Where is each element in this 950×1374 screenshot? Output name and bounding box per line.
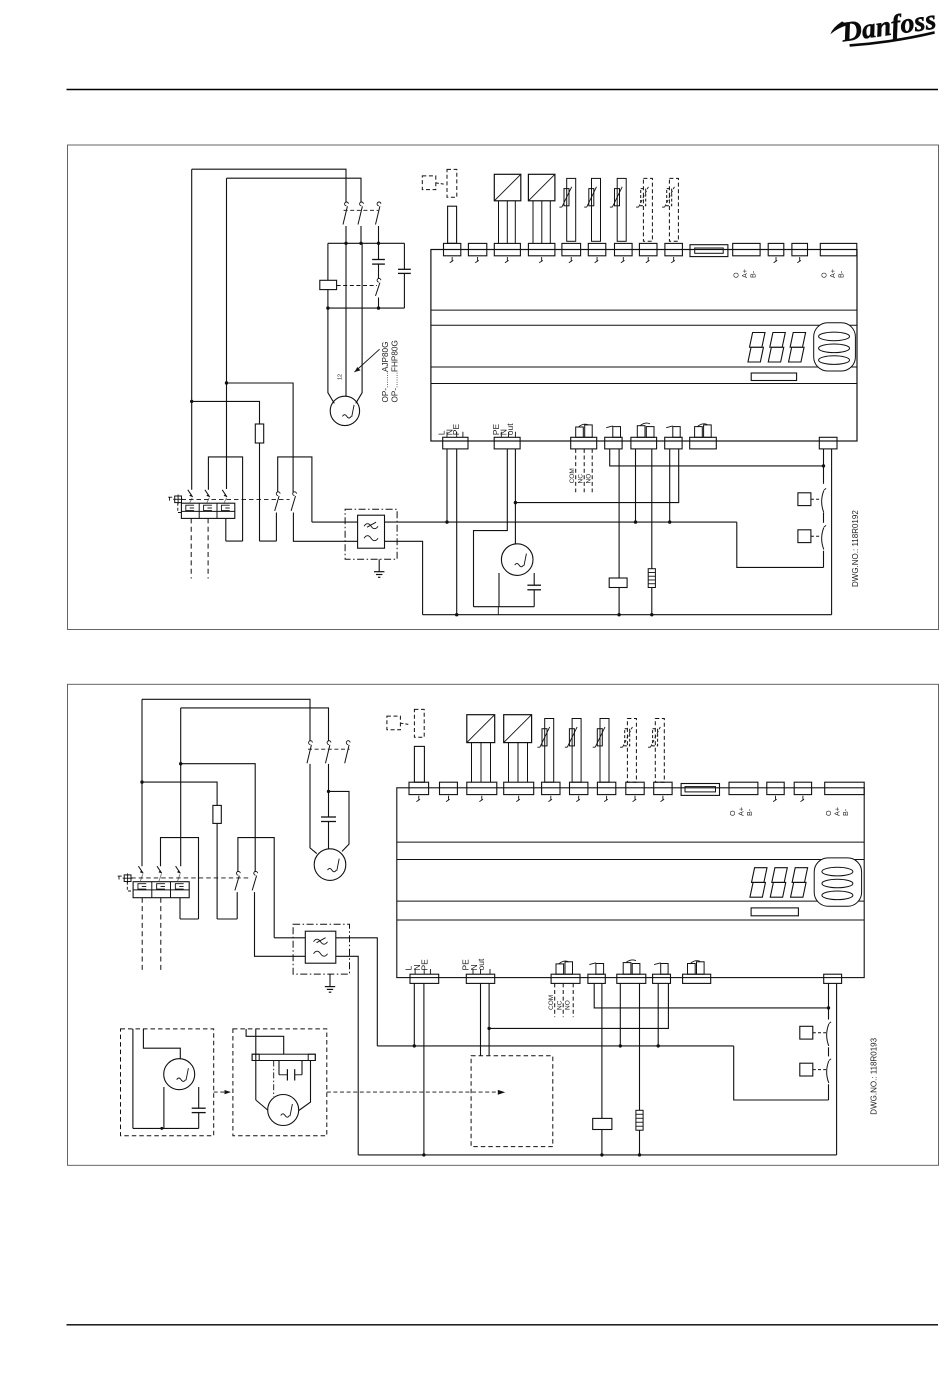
optional dashed sensor above terminal 1 xyxy=(422,176,436,190)
defrost unit wire 1 xyxy=(246,1029,284,1054)
node alarm rail (diagram 2) xyxy=(827,1006,830,1009)
controller EKC main box (diagram 2) xyxy=(397,788,864,978)
terminal 6 S4 (diagram 2) xyxy=(570,782,588,794)
auxiliary relay coil xyxy=(609,578,627,588)
main switch pole 1 xyxy=(276,492,280,496)
wire TB1 N xyxy=(456,449,458,615)
svg-text:B-: B- xyxy=(749,270,758,278)
fan unit capacitor xyxy=(192,1107,206,1109)
svg-text:PE: PE xyxy=(451,424,461,436)
optional dashed sensor (diagram 2) xyxy=(387,716,401,730)
alarm chain to bus (diagram 2) xyxy=(828,1084,830,1100)
rail fuse-to-pole1 (diagram 2) xyxy=(217,918,237,920)
wire L1 drop xyxy=(191,169,193,490)
defrost unit wiring xyxy=(256,1100,268,1110)
overload pole 3 bottom riser xyxy=(225,518,227,541)
controller label window xyxy=(751,373,796,381)
compressor lead 2 xyxy=(345,243,347,396)
svg-text:COM: COM xyxy=(548,995,555,1010)
wire DO3 left (diagram 2) xyxy=(619,983,621,1046)
node fan branch (diagram 2) xyxy=(487,1027,490,1030)
wire DO4 left (diagram 2) xyxy=(657,983,659,1046)
pressure transmitter Pc xyxy=(528,174,555,201)
controller buttons xyxy=(814,323,856,371)
terminal block O A+ B- (diagram 2 right) xyxy=(825,782,865,794)
node L2 branch xyxy=(225,381,228,384)
ground symbol (diagram 2) xyxy=(329,974,331,987)
svg-text:PE: PE xyxy=(420,959,430,971)
terminal PE N out (fan supply) xyxy=(494,437,520,449)
wire L2 to contactor xyxy=(227,178,362,202)
node contact outputs xyxy=(344,242,347,245)
controller 2 label window xyxy=(751,908,798,916)
terminal 8 S6 (diagram 2) xyxy=(626,782,644,794)
motor protection breaker block xyxy=(181,503,234,518)
pressure transmitter Pc (diagram 2) xyxy=(504,715,532,743)
wire TB1 L (diagram 2) xyxy=(413,983,415,1046)
branch around capacitor (diagram 2) xyxy=(329,791,350,851)
relay terminal DO5 (diagram 2) xyxy=(683,974,711,983)
overload loop pole 2 (diagram 2) xyxy=(161,838,199,919)
node TB1-L (diagram 2) xyxy=(413,1044,416,1047)
wire TB2 out xyxy=(514,449,516,544)
fuse F1 xyxy=(255,424,263,443)
svg-text:out: out xyxy=(505,423,515,435)
wire L2 drop xyxy=(226,178,228,489)
node coil bottom (diagram 2) xyxy=(600,1153,603,1156)
node DO3 left xyxy=(634,520,637,523)
node L2 branch (diagram 2) xyxy=(179,762,182,765)
fan rail to DO4 xyxy=(515,449,678,503)
relay terminal DO3 (diagram 2) xyxy=(617,974,646,983)
optional sensor S6 (diagram 2) xyxy=(627,719,636,783)
wire DO3 left xyxy=(635,449,637,522)
supply cable dashed 1 xyxy=(190,518,192,578)
node DO3 left (diagram 2) xyxy=(619,1044,622,1047)
supply terminal pin ticks (diagram 2) xyxy=(414,969,416,974)
terminal alarm/network (diagram 2) xyxy=(824,974,842,983)
node fan branch xyxy=(514,501,517,504)
overload trip contact 2 (diagram 2) xyxy=(157,866,162,873)
alarm chain to bus L xyxy=(823,551,825,568)
relay contact symbol DO5 (diagram 2) xyxy=(688,964,696,975)
relay contact symbol DO2 xyxy=(613,427,621,438)
relay terminal DO2 xyxy=(605,437,622,449)
pressure transmitter Pe (diagram 2) xyxy=(467,715,495,743)
figure frame 1 xyxy=(68,145,939,630)
fan motor (unit 1) xyxy=(164,1059,195,1090)
wire rail lower (start network) xyxy=(328,307,405,309)
dashed COM NC NO stubs xyxy=(575,449,577,492)
run capacitor C2 xyxy=(403,243,405,269)
defrost heater bar xyxy=(252,1054,315,1060)
sensor probe on terminal 1 (diagram 2) xyxy=(414,746,424,782)
main switch pole 2 contact (diagram 2) xyxy=(254,871,258,875)
start relay contact xyxy=(377,278,381,282)
wire TB8 left (alarm chain) xyxy=(823,449,825,484)
relay terminal DO4 (diagram 2) xyxy=(653,974,671,983)
fan frame stub to N bus xyxy=(497,607,499,615)
node L1 branch xyxy=(190,400,193,403)
main switch pole 2 xyxy=(293,492,297,496)
terminal L N PE (supply) xyxy=(443,437,468,449)
terminal (alarm/network) xyxy=(819,437,837,449)
breaker trip linkage dashes xyxy=(182,498,290,500)
svg-text:B-: B- xyxy=(837,270,846,278)
defrost heater element xyxy=(648,569,655,588)
wire DO2 right through relay coil (diagram 2) xyxy=(601,983,603,1118)
terminal 1 (diagram 2) xyxy=(409,782,429,794)
link alarm switches (diagram 2) xyxy=(828,1047,830,1056)
bottom bus N xyxy=(423,614,832,616)
relay contact symbol DO4 xyxy=(673,427,680,438)
dashed COM NC NO stubs (diagram 2) xyxy=(554,983,556,1017)
compressor middle lead with node (diagram 2) xyxy=(328,764,330,817)
defrost unit capacitor xyxy=(286,1069,288,1080)
defrost unit fan motor xyxy=(268,1095,299,1126)
relay contact symbol DO5 xyxy=(695,427,703,438)
node alarm rail xyxy=(822,464,825,467)
terminal 2 (diagram 2) xyxy=(440,782,458,794)
terminal 12 (diagram 2) xyxy=(767,782,784,794)
contactor linkage dashes (diagram 2) xyxy=(308,748,350,750)
auxiliary relay coil (diagram 2) xyxy=(593,1118,612,1129)
evaporator fan unit (dashed box) xyxy=(121,1029,214,1136)
compressor run capacitor (diagram 2) xyxy=(321,816,336,818)
node L1 branch (diagram 2) xyxy=(140,780,143,783)
rail pole3-to-loop xyxy=(226,540,243,542)
relay contact symbol DO4 (diagram 2) xyxy=(661,964,668,975)
display/jumper connector (diagram 2) xyxy=(681,784,719,796)
wire TB2 PE (diagram 2) xyxy=(480,983,482,1055)
compressor lead 3 xyxy=(356,243,362,403)
contactor contact K1-1 xyxy=(345,202,349,206)
terminal block O A+ B- (network 2) xyxy=(820,243,857,255)
terminal 2 xyxy=(468,243,486,255)
alarm switch 2 (diagram 2) xyxy=(800,1063,813,1076)
terminal 13 (diagram 2) xyxy=(794,782,811,794)
controller 7-segment display xyxy=(750,333,766,348)
terminal 9 (S7 sensor, option) xyxy=(665,243,683,255)
main switch pole 1 (diagram 2) xyxy=(237,871,241,875)
relay terminal DO2 (diagram 2) xyxy=(588,974,605,983)
display/jumper connector xyxy=(690,245,728,257)
relay terminal DO5 xyxy=(690,437,717,449)
compressor motor (diagram 2) xyxy=(314,849,346,881)
sensor probe on terminal 1 xyxy=(448,206,457,243)
overload trip contact 2 xyxy=(205,490,210,497)
relay contact symbol on COM NC NO terminal xyxy=(576,427,584,437)
motor protection breaker (diagram 2) xyxy=(133,882,189,898)
fan motor M2 xyxy=(501,544,533,576)
overload trip contact 1 xyxy=(188,490,193,497)
wire to main switch pole 2 xyxy=(227,383,294,492)
overload trip contact 3 xyxy=(222,490,227,497)
wire TB1 L xyxy=(446,449,448,522)
wire TB2 PE to fan frame xyxy=(474,449,508,607)
breaker manual operator xyxy=(175,496,182,503)
pressure transmitter Pe xyxy=(494,174,521,201)
relay contact symbol DO2 (diagram 2) xyxy=(596,964,604,975)
alarm switch 1 xyxy=(798,493,811,506)
relay terminal DO3 xyxy=(631,437,657,449)
temperature sensor S3 xyxy=(567,178,576,241)
operator dashes to block xyxy=(178,503,182,513)
optional sensor S6 (dashed) xyxy=(643,178,652,241)
annotation dashes unit2-middle box xyxy=(327,1091,497,1093)
terminal 7 (S5 sensor) xyxy=(615,243,633,255)
svg-text:B-: B- xyxy=(841,808,850,816)
svg-text:out: out xyxy=(476,958,486,970)
start capacitor C1 xyxy=(378,243,380,259)
start capacitor plates xyxy=(372,259,385,261)
Danfoss logo xyxy=(828,5,938,51)
terminal 6 (S4 sensor) xyxy=(588,243,606,255)
terminal L N PE (diagram 2) xyxy=(410,974,439,983)
rail fuse-to-pole1 xyxy=(260,540,277,542)
contactor linkage dashes xyxy=(344,209,379,211)
svg-text:COM: COM xyxy=(569,468,576,483)
node heater bottom (diagram 2) xyxy=(638,1153,641,1156)
supply cable dashed 2 xyxy=(207,518,209,578)
temperature sensor S5 xyxy=(617,178,626,241)
wire TB1 N (diagram 2) xyxy=(423,983,425,1155)
contactor contact (diagram 2) pole 3 xyxy=(346,741,350,745)
relay terminal COM NC NO (diagram 2) xyxy=(551,974,580,983)
bus N out of filter (diagram 2) xyxy=(336,956,358,1155)
mains filter / power module xyxy=(345,509,397,559)
wire L1 drop (diagram 2) xyxy=(141,699,143,866)
relay contact symbol DO3 xyxy=(637,426,645,438)
node TB1-L xyxy=(445,520,448,523)
fan run capacitor xyxy=(527,584,541,586)
terminal 8 (S6 sensor, option) xyxy=(639,243,657,255)
wire L1 (diagram 2) xyxy=(142,699,310,741)
node TB1-N xyxy=(455,613,458,616)
bus L jog to alarm chain xyxy=(737,522,824,567)
svg-text:OP-.......AJP80G: OP-.......AJP80G xyxy=(381,342,390,403)
compressor lead 1 xyxy=(328,308,334,403)
rail pole3-to-loop (diagram 2) xyxy=(180,918,199,920)
upper rail into filter (diagram 2) xyxy=(274,937,305,939)
wire DO2 right through relay coil xyxy=(618,449,620,578)
bus L jog to alarm chain (diagram 2) xyxy=(734,1046,829,1100)
start relay coil xyxy=(327,243,329,280)
terminal 12 xyxy=(768,243,784,255)
compressor motor M1 xyxy=(330,396,359,425)
sensor dash-dot link xyxy=(273,1061,275,1097)
wire TB8 right to N bus (diagram 2) xyxy=(836,983,838,1155)
compressor lead left (diagram 2) xyxy=(310,764,317,854)
main switch loop pole1 (diagram 2) xyxy=(238,838,274,938)
controller 2 divider lines xyxy=(397,841,864,843)
supply cable dashed 1 (diagram 2) xyxy=(141,898,143,972)
overload loop pole 2 xyxy=(208,457,242,541)
fan unit wire 1 xyxy=(132,1029,134,1129)
contactor contact (diagram 2) pole 2 xyxy=(327,741,331,745)
pole1 bottom lead (diagram 2) xyxy=(236,892,238,919)
wire TB8 left (diagram 2) xyxy=(828,983,830,1019)
svg-text:12: 12 xyxy=(338,374,344,380)
svg-text:DWG.NO.: 118R0193: DWG.NO.: 118R0193 xyxy=(870,1037,879,1114)
overload pole 3 riser (diagram 2) xyxy=(179,898,181,919)
annotation arrow to compressor xyxy=(355,349,380,372)
terminal 7 S5 (diagram 2) xyxy=(597,782,615,794)
bottom bus N (diagram 2) xyxy=(358,1154,836,1156)
svg-text:NC: NC xyxy=(577,474,584,484)
annotation dashes unit1-unit2 xyxy=(214,1091,230,1093)
node heater bottom xyxy=(650,613,653,616)
start relay coil box xyxy=(320,280,337,289)
wire DO3 right through heater (diagram 2) xyxy=(639,983,641,1110)
wire DO2 left to alarm rail xyxy=(610,449,824,466)
relay terminal COM NC NO xyxy=(571,437,597,449)
contactor contact (diagram 2) pole 1 xyxy=(309,741,313,745)
wire L1 to contactor xyxy=(192,169,346,202)
fan unit wire 2 xyxy=(143,1029,180,1059)
pole2 bottom lead to lower rail (diagram 2) xyxy=(255,892,306,956)
air flow middle dashed box xyxy=(471,1056,553,1147)
figure frame 2 xyxy=(68,684,939,1165)
ground symbol xyxy=(378,559,380,572)
run capacitor plates xyxy=(398,268,411,270)
fan unit enclosure xyxy=(163,1087,165,1128)
terminal 5 S3 (diagram 2) xyxy=(542,782,560,794)
overload trip contact 1 (diagram 2) xyxy=(138,866,143,873)
wire to fuse (diagram 2) xyxy=(142,782,217,805)
controller divider lines xyxy=(431,309,857,311)
temperature sensor S5 (diagram 2) xyxy=(600,719,609,783)
fuse output wire xyxy=(259,443,261,541)
supply terminal pin ticks xyxy=(446,432,448,438)
terminal block O A+ B- (diagram 2 left) xyxy=(729,782,758,794)
terminal PE N out (diagram 2) xyxy=(466,974,494,983)
top rule xyxy=(67,89,939,91)
controller EKC main box (diagram 1) xyxy=(431,250,857,442)
terminal 13 xyxy=(792,243,808,255)
bus N out of filter xyxy=(385,541,423,614)
svg-text:B-: B- xyxy=(745,808,754,816)
wire DO4 left xyxy=(669,449,671,522)
bottom rule xyxy=(67,1324,939,1326)
temperature sensor S3 (diagram 2) xyxy=(545,719,554,783)
terminal 4 (Pc transmitter) xyxy=(528,243,555,255)
terminal 3 Pe (diagram 2) xyxy=(467,782,497,794)
start relay linkage dashes xyxy=(337,285,377,287)
defrost heater element (diagram 2) xyxy=(636,1110,643,1130)
wire DO2 left to alarm rail (diagram 2) xyxy=(594,983,828,1008)
svg-text:NC: NC xyxy=(556,1000,563,1010)
upper rail into filter xyxy=(312,521,358,523)
fuse (diagram 2) xyxy=(213,805,221,823)
node DO4 left (diagram 2) xyxy=(657,1044,660,1047)
capacitor to motor lead (diagram 2) xyxy=(328,822,330,849)
optional sensor S7 (diagram 2) xyxy=(655,719,664,783)
node TB1-N (diagram 2) xyxy=(422,1153,425,1156)
alarm switch 1 (diagram 2) xyxy=(800,1026,813,1039)
fan rail to DO4 (diagram 2) xyxy=(489,983,668,1028)
relay contact symbol COM NC NO (diagram 2) xyxy=(556,964,564,974)
contactor contact K1-2 xyxy=(360,202,364,206)
wire TB2 out (diagram 2) xyxy=(488,983,490,1055)
terminal block O A+ B- (network 1) xyxy=(733,243,760,255)
svg-text:NO: NO xyxy=(585,474,592,484)
link between alarm switches xyxy=(823,513,825,523)
main switch pole1 bottom lead xyxy=(275,513,277,542)
svg-text:OP-.......FHP80G: OP-.......FHP80G xyxy=(391,340,400,402)
wire L2 (diagram 2) xyxy=(181,708,329,741)
breaker manual operator (diagram 2) xyxy=(124,875,131,882)
terminal 4 Pc (diagram 2) xyxy=(504,782,534,794)
wire TB8 right to N bus xyxy=(831,449,833,615)
fan unit bottom wire xyxy=(133,1127,199,1129)
relay terminal DO4 xyxy=(665,437,682,449)
relay contact symbol DO3 (diagram 2) xyxy=(623,963,631,975)
terminal 1 (sensor input) xyxy=(444,243,461,255)
controller 2 buttons xyxy=(814,858,861,906)
node DO4 left xyxy=(668,520,671,523)
alarm switch 2 xyxy=(798,530,811,543)
optional sensor S7 (dashed) xyxy=(669,178,678,241)
temperature sensor S4 (diagram 2) xyxy=(572,719,581,783)
bus L out of filter xyxy=(385,521,737,523)
wire rail upper (start network) xyxy=(328,242,405,244)
main switch pole2 bottom lead xyxy=(293,513,357,542)
controller 2 7-segment display xyxy=(752,868,768,883)
trip linkage dashes (diagram 2) xyxy=(131,877,250,879)
wire to fuse xyxy=(192,401,260,424)
defrost unit (dashed box) xyxy=(233,1029,327,1136)
terminal 5 (S3 sensor) xyxy=(562,243,581,255)
overload trip contact 3 (diagram 2) xyxy=(176,866,181,873)
svg-text:DWG.NO.: 118R0192: DWG.NO.: 118R0192 xyxy=(851,510,860,587)
terminal 3 (Pe transmitter) xyxy=(494,243,520,255)
wire to main switch pole 2 (diagram 2) xyxy=(181,764,256,872)
mains filter (diagram 2) xyxy=(293,924,349,974)
terminal 9 S7 (diagram 2) xyxy=(654,782,672,794)
node coil bottom xyxy=(617,613,620,616)
contactor contact K1-3 xyxy=(377,202,381,206)
temperature sensor S4 xyxy=(592,178,601,241)
operator dashes (diagram 2) xyxy=(127,882,133,891)
supply cable dashed 2 (diagram 2) xyxy=(160,898,162,972)
bus L out of filter (diagram 2) xyxy=(336,938,378,1046)
fan motor enclosure xyxy=(498,573,500,607)
main switch loop (pole1 top) xyxy=(278,457,312,522)
svg-text:NO: NO xyxy=(564,1000,571,1010)
fuse output (diagram 2) xyxy=(216,823,218,919)
bus L horizontal (diagram 2) xyxy=(377,1045,733,1047)
wire DO3 right through heater xyxy=(651,449,653,569)
wire L2 drop (diagram 2) xyxy=(180,708,182,866)
defrost unit wire 2 xyxy=(255,1029,257,1100)
